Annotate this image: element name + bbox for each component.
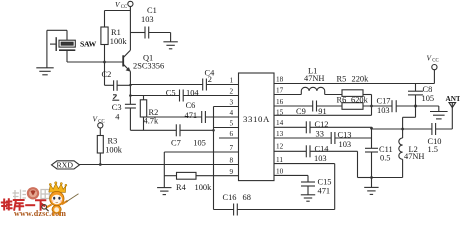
capacitor C10 bbox=[432, 123, 452, 135]
watermark faint gray logo text bbox=[13, 190, 50, 200]
svg-text:100k: 100k bbox=[105, 145, 123, 154]
svg-text:103: 103 bbox=[314, 154, 327, 163]
label R4 value bbox=[176, 183, 212, 192]
svg-text:C2: C2 bbox=[102, 70, 112, 79]
node C17/C8 junction bbox=[414, 105, 417, 108]
wire pin6 stub bbox=[219, 137, 239, 139]
label C9 value bbox=[296, 107, 327, 116]
resistor R1 bbox=[101, 11, 108, 63]
label C12 value bbox=[315, 120, 329, 138]
svg-text:C16: C16 bbox=[223, 193, 237, 202]
wire pin18 row to VCC bbox=[274, 83, 434, 85]
label C6 value bbox=[185, 101, 198, 120]
svg-text:17: 17 bbox=[276, 87, 284, 95]
label C7 value bbox=[171, 138, 206, 147]
label R5 value bbox=[337, 74, 370, 83]
capacitor C11 on tank vertical bbox=[365, 127, 378, 187]
wire C7 row bbox=[130, 124, 213, 136]
svg-text:2SC3356: 2SC3356 bbox=[133, 61, 164, 70]
ground (tank) bbox=[364, 187, 378, 194]
svg-text:18: 18 bbox=[276, 76, 284, 84]
label R1 value bbox=[110, 28, 128, 46]
svg-text:R3: R3 bbox=[108, 137, 118, 146]
wire pin2 row with capacitor C5 bbox=[130, 90, 238, 102]
svg-text:R5: R5 bbox=[337, 74, 347, 83]
svg-text:47NH: 47NH bbox=[404, 152, 424, 161]
svg-text:103: 103 bbox=[141, 15, 154, 24]
label L1 value bbox=[304, 66, 324, 83]
node L2 top junction bbox=[401, 128, 404, 131]
svg-text:CC: CC bbox=[432, 59, 438, 64]
wire pin16 row with capacitor C9 bbox=[274, 101, 342, 112]
svg-text:7: 7 bbox=[230, 144, 234, 152]
svg-text:C13: C13 bbox=[338, 130, 352, 139]
wire pin8 row from RXD bbox=[80, 164, 239, 166]
watermark mascot bbox=[42, 182, 79, 216]
svg-text:9: 9 bbox=[230, 168, 234, 176]
svg-text:105: 105 bbox=[422, 94, 435, 103]
svg-text:SAW: SAW bbox=[80, 39, 97, 48]
svg-text:1: 1 bbox=[230, 77, 234, 85]
wire pin14 row with capacitor C12 bbox=[274, 121, 372, 133]
wire L1 to R5 bbox=[325, 94, 342, 96]
label C5 value bbox=[166, 88, 200, 97]
SAW resonator bbox=[47, 30, 75, 68]
inductor L2 bbox=[372, 129, 403, 178]
svg-text:4: 4 bbox=[230, 109, 234, 117]
svg-text:104: 104 bbox=[186, 88, 199, 97]
svg-text:100k: 100k bbox=[110, 37, 128, 46]
svg-text:CC: CC bbox=[98, 120, 104, 125]
svg-text:471: 471 bbox=[318, 186, 331, 195]
svg-text:105: 105 bbox=[193, 138, 206, 147]
svg-text:C14: C14 bbox=[315, 145, 330, 154]
svg-text:12: 12 bbox=[276, 142, 284, 150]
wire pin5 stub bbox=[214, 127, 239, 129]
svg-text:R6: R6 bbox=[337, 95, 347, 104]
ground (C15) bbox=[301, 195, 315, 201]
capacitor C8 bbox=[408, 84, 423, 107]
svg-text:RXD: RXD bbox=[57, 160, 74, 169]
svg-text:3310A: 3310A bbox=[243, 114, 270, 124]
resistor R2 bbox=[140, 96, 146, 131]
watermark red emblem circle bbox=[27, 187, 39, 199]
wire collector rail to C1 bbox=[130, 32, 145, 34]
label C16 value bbox=[223, 193, 251, 202]
svg-text:CC: CC bbox=[121, 5, 127, 10]
svg-text:C15: C15 bbox=[318, 178, 332, 187]
ground (SAW) bbox=[36, 68, 53, 75]
svg-text:0.5: 0.5 bbox=[380, 154, 390, 163]
svg-text:220k: 220k bbox=[352, 74, 370, 83]
tag RXD bbox=[52, 161, 80, 169]
svg-text:6: 6 bbox=[230, 130, 234, 138]
svg-text:1.5: 1.5 bbox=[428, 145, 438, 154]
wire pin15 row bbox=[274, 114, 372, 116]
svg-text:C8: C8 bbox=[423, 85, 433, 94]
svg-text:103: 103 bbox=[339, 140, 352, 149]
wire pin13 row with capacitor C13 bbox=[274, 132, 372, 144]
svg-text:3: 3 bbox=[230, 99, 234, 107]
wire pin1 row with capacitor C4 bbox=[130, 79, 238, 91]
svg-text:C3: C3 bbox=[112, 103, 122, 112]
svg-text:33: 33 bbox=[316, 129, 324, 138]
svg-text:471: 471 bbox=[185, 111, 198, 120]
power terminal VCC top-left bbox=[128, 1, 133, 32]
svg-text:C6: C6 bbox=[186, 101, 196, 110]
capacitor C15 bbox=[301, 182, 315, 195]
svg-text:C9: C9 bbox=[296, 107, 306, 116]
label R2 value bbox=[144, 108, 159, 126]
svg-text:103: 103 bbox=[377, 106, 390, 115]
op-amp IC U1 3310A body bbox=[239, 73, 275, 181]
svg-text:C12: C12 bbox=[315, 120, 329, 129]
svg-text:C17: C17 bbox=[377, 97, 391, 106]
svg-text:C7: C7 bbox=[171, 138, 181, 147]
label C3 value bbox=[112, 103, 122, 121]
wire pin17 row bbox=[274, 94, 301, 96]
capacitor C17 bbox=[392, 100, 416, 112]
wire pin7 row bbox=[164, 151, 238, 153]
ground (C1) bbox=[163, 42, 177, 49]
svg-text:2: 2 bbox=[208, 75, 212, 84]
node tank top junction bbox=[370, 127, 373, 130]
svg-text:68: 68 bbox=[243, 193, 251, 202]
svg-text:4.7k: 4.7k bbox=[144, 117, 159, 126]
label C14 value bbox=[314, 145, 329, 164]
antenna ANT bbox=[449, 103, 456, 129]
node R5/R6/C17 junction bbox=[370, 105, 373, 108]
label R6 value bbox=[337, 95, 369, 104]
label C4 value bbox=[205, 68, 216, 84]
svg-text:2: 2 bbox=[230, 88, 234, 96]
svg-text:100k: 100k bbox=[195, 183, 213, 192]
svg-text:C1: C1 bbox=[147, 6, 157, 15]
power terminal VCC right bbox=[432, 65, 437, 84]
capacitor C3 bbox=[125, 104, 136, 130]
ground (pin7/R4) bbox=[157, 152, 171, 195]
resistor R5 bbox=[342, 90, 372, 97]
svg-text:16: 16 bbox=[276, 98, 284, 106]
svg-text:10: 10 bbox=[276, 167, 284, 175]
svg-text:R1: R1 bbox=[111, 28, 121, 37]
capacitor C1 bbox=[145, 27, 171, 42]
wire pin3 to bottom rail vertical bbox=[214, 107, 239, 210]
ground (C8/C17) bbox=[416, 106, 448, 119]
inductor L1 bbox=[301, 87, 324, 94]
label C1 value bbox=[141, 6, 157, 24]
label C15 value bbox=[318, 178, 332, 196]
svg-text:13: 13 bbox=[276, 130, 284, 138]
node C7 junction bbox=[212, 129, 215, 132]
node emitter/C2 junction bbox=[129, 84, 132, 87]
svg-text:15: 15 bbox=[276, 109, 284, 117]
pin numbers left 1-9 bbox=[230, 77, 234, 176]
label R3 value bbox=[105, 137, 123, 155]
bottom rail with capacitor C16 bbox=[214, 204, 335, 216]
wire C8 node down to L2 bbox=[403, 106, 416, 129]
label C13 value bbox=[338, 130, 352, 149]
svg-text:8: 8 bbox=[230, 157, 234, 165]
wire pin10 row to capacitor C15 bbox=[274, 175, 308, 182]
resistor R3 bbox=[97, 136, 103, 165]
wire pin12 row with capacitor C14 bbox=[274, 145, 372, 177]
svg-text:ANT: ANT bbox=[446, 95, 460, 103]
label VCC (R3) bbox=[93, 114, 105, 124]
node emitter/row2 bbox=[129, 94, 132, 97]
capacitor C2 (trimmer) bbox=[105, 62, 131, 91]
transistor Q1 bbox=[123, 33, 130, 105]
label VCC right bbox=[427, 53, 439, 63]
wire right vertical rows17-15 bbox=[371, 95, 373, 116]
label C8 value bbox=[422, 85, 435, 103]
power terminal VCC (R3) bbox=[98, 123, 103, 136]
svg-text:14: 14 bbox=[276, 119, 284, 127]
svg-text:5: 5 bbox=[230, 120, 234, 128]
wire VCC rail to R1 top bbox=[105, 10, 131, 12]
wire base row bbox=[67, 61, 123, 63]
resistor R6 bbox=[342, 103, 392, 110]
svg-text:620k: 620k bbox=[351, 95, 369, 104]
pin numbers right 18-10 bbox=[276, 76, 284, 176]
label C10 value bbox=[428, 137, 442, 154]
resistor R4 bbox=[164, 172, 238, 179]
wire pin11 row to bottom rail bbox=[274, 164, 335, 210]
label C11 value bbox=[379, 145, 393, 162]
wire tank line to antenna bbox=[372, 128, 432, 130]
svg-text:C5: C5 bbox=[166, 88, 176, 97]
svg-text:91: 91 bbox=[318, 107, 326, 116]
wire pin4 row with capacitor C6 bbox=[144, 111, 239, 123]
label VCC top-left bbox=[115, 0, 127, 10]
svg-text:11: 11 bbox=[276, 156, 283, 164]
label Q1 2SC3356 bbox=[133, 53, 164, 70]
watermark red text wei-ku-yi-xia bbox=[2, 199, 46, 209]
label C17 value bbox=[377, 97, 391, 115]
label L2 value bbox=[404, 145, 424, 161]
svg-text:47NH: 47NH bbox=[304, 74, 324, 83]
node R3/RXD junction bbox=[99, 163, 102, 166]
svg-text:R4: R4 bbox=[176, 183, 187, 192]
node base junction bbox=[103, 61, 106, 64]
node tank bottom junction bbox=[370, 176, 373, 179]
trimmer mark under C2 bbox=[112, 95, 119, 100]
